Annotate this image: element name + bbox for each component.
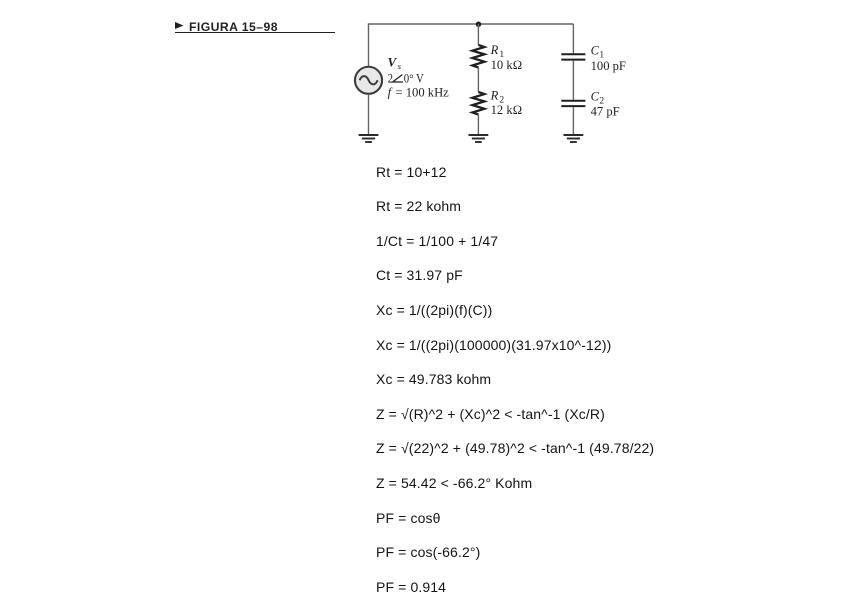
wire: C1 to C2 [572, 61, 574, 100]
svg-text:R: R [490, 88, 499, 102]
calculation line 4 [376, 267, 463, 283]
calculation line 10 [376, 475, 532, 491]
svg-text:47 pF: 47 pF [591, 104, 620, 118]
calculation line 11 [376, 510, 441, 526]
ground (source) [359, 135, 379, 142]
svg-text:C: C [591, 90, 600, 104]
ground (R2 branch) [469, 135, 489, 142]
caption arrow triangle [175, 22, 185, 30]
wire: top horizontal bus [368, 23, 574, 25]
wire: node to R1 [477, 24, 479, 45]
caption underline [175, 32, 335, 34]
calculation line 8 [376, 406, 605, 422]
svg-text:s: s [398, 61, 402, 71]
svg-text:C: C [591, 44, 600, 58]
svg-text:f: f [388, 85, 393, 99]
calculation line 3 [376, 233, 498, 249]
wire: R1 to R2 [477, 68, 479, 93]
voltage source sine symbol [360, 76, 378, 84]
svg-text:12 kΩ: 12 kΩ [491, 103, 523, 117]
svg-text:V: V [388, 55, 398, 70]
svg-text:100 pF: 100 pF [591, 59, 626, 73]
voltage source VS circle [355, 67, 382, 94]
svg-text:R: R [490, 43, 499, 57]
resistor R1 zigzag [472, 45, 484, 68]
svg-text:= 100 kHz: = 100 kHz [396, 85, 450, 99]
wire: R2 to ground [477, 115, 479, 136]
svg-text:10 kΩ: 10 kΩ [491, 58, 523, 72]
resistor R2 zigzag [472, 92, 484, 115]
capacitor C2 plates [561, 101, 585, 106]
calculation line 7 [376, 371, 491, 387]
wire: bus to C1 [572, 24, 574, 53]
ground (C2 branch) [564, 135, 584, 142]
svg-text:2: 2 [388, 71, 393, 85]
wire: C2 to ground [572, 107, 574, 135]
calculation line 1 [376, 164, 446, 180]
calculation line 2 [376, 198, 461, 214]
figure caption "FIGURA 15-98" [189, 20, 278, 34]
circuit schematic [340, 10, 670, 155]
calculation line 12 [376, 544, 480, 560]
calculation line 6 [376, 337, 611, 353]
wire: source top lead [368, 24, 370, 66]
calculation line 9 [376, 440, 654, 456]
node A: junction dot [476, 22, 481, 27]
calculation line 5 [376, 302, 492, 318]
angle symbol [393, 75, 403, 82]
svg-text:0° V: 0° V [404, 71, 424, 85]
capacitor C1 plates [561, 54, 585, 59]
wire: source bottom lead [368, 94, 370, 135]
calculation line 13 [376, 579, 446, 595]
